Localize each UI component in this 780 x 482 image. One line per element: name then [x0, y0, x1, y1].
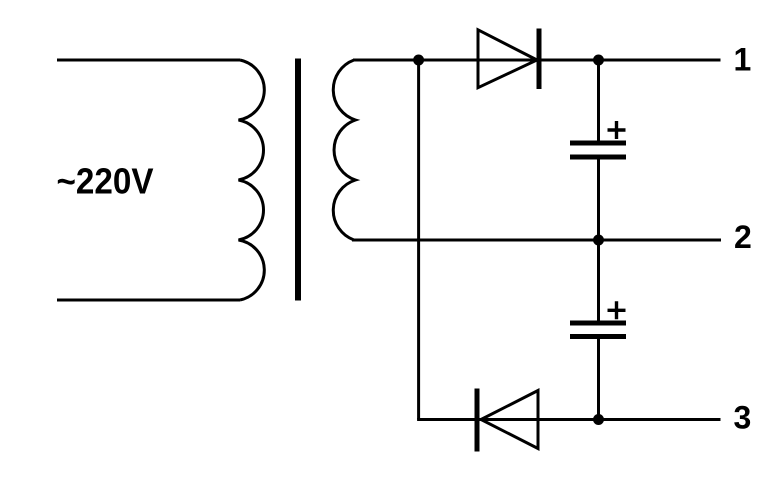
capacitor C2 top plate: [570, 321, 626, 326]
diode D2 triangle (anode): [481, 391, 538, 449]
wire: C2 top lead: [597, 240, 600, 321]
wire: C1 bottom lead: [597, 159, 600, 240]
svg-text:1: 1: [734, 42, 752, 78]
capacitor C2 bottom plate: [570, 334, 626, 339]
svg-text:2: 2: [734, 219, 752, 255]
capacitor C1 polarity plus sign: [608, 121, 626, 139]
junction node A (secondary top / D2 branch): [413, 55, 424, 66]
transformer T1 core: [295, 59, 301, 301]
capacitor C1 top plate: [570, 141, 626, 146]
capacitor C1 bottom plate: [570, 155, 626, 160]
wire: C2 bottom lead: [597, 339, 600, 420]
diode D2 cathode bar: [475, 389, 480, 452]
wire: vertical branch from node A down to D2: [417, 60, 420, 420]
junction node C (C1 / C2 / output 2): [593, 235, 604, 246]
wire: secondary bottom to output 2: [352, 239, 721, 242]
svg-text:3: 3: [734, 400, 752, 436]
wire: C1 top lead: [597, 60, 600, 141]
capacitor C2 polarity plus sign: [608, 301, 626, 319]
wire: primary top lead: [57, 59, 240, 62]
wire: secondary top to output 1 (net of node A and D1): [353, 59, 721, 62]
junction node B (D1 cathode / C1 / output 1): [593, 55, 604, 66]
diode D1 cathode bar: [537, 29, 542, 90]
transformer T1 secondary winding: [333, 60, 355, 240]
junction node D (D2 / C2 / output 3): [593, 414, 604, 425]
svg-text:~220V: ~220V: [57, 161, 155, 202]
wire: primary bottom lead: [57, 299, 240, 302]
wire: bottom run through D2 to output 3: [417, 418, 720, 421]
diode D1 triangle (anode): [478, 30, 537, 88]
transformer T1 primary winding: [239, 60, 265, 300]
